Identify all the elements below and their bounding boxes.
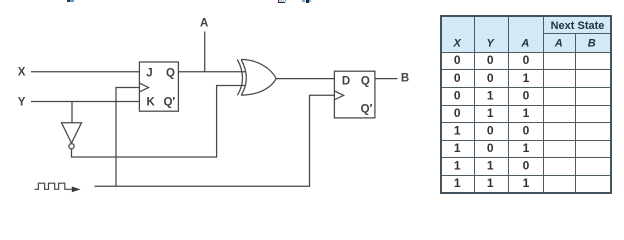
svg-text:0: 0 xyxy=(454,71,461,85)
svg-text:0: 0 xyxy=(487,141,494,155)
svg-text:1: 1 xyxy=(487,88,494,102)
svg-text:0: 0 xyxy=(523,53,530,67)
svg-text:0: 0 xyxy=(523,88,530,102)
svg-text:X: X xyxy=(453,38,462,50)
svg-text:1: 1 xyxy=(523,106,530,120)
svg-text:1: 1 xyxy=(454,159,461,173)
svg-text:B: B xyxy=(401,73,409,85)
svg-text:0: 0 xyxy=(454,53,461,67)
svg-text:Q: Q xyxy=(166,68,175,80)
svg-text:A: A xyxy=(520,38,529,50)
svg-text:1: 1 xyxy=(523,176,530,190)
svg-text:0: 0 xyxy=(454,106,461,120)
svg-text:A: A xyxy=(554,38,563,50)
svg-text:X: X xyxy=(18,67,26,79)
svg-text:1: 1 xyxy=(454,141,461,155)
svg-text:1: 1 xyxy=(523,141,530,155)
svg-text:1: 1 xyxy=(487,106,494,120)
svg-text:0: 0 xyxy=(523,123,530,137)
svg-text:0: 0 xyxy=(487,123,494,137)
svg-text:Next State: Next State xyxy=(551,20,605,32)
svg-text:1: 1 xyxy=(487,159,494,173)
svg-text:1: 1 xyxy=(454,123,461,137)
svg-text:0: 0 xyxy=(487,71,494,85)
svg-text:A: A xyxy=(200,17,208,29)
svg-text:Y: Y xyxy=(18,97,26,109)
svg-text:1: 1 xyxy=(487,176,494,190)
svg-text:1: 1 xyxy=(454,176,461,190)
svg-text:Q′: Q′ xyxy=(163,96,175,108)
svg-text:0: 0 xyxy=(454,88,461,102)
svg-text:0: 0 xyxy=(487,53,494,67)
svg-text:Q′: Q′ xyxy=(361,103,373,115)
svg-text:B: B xyxy=(588,38,596,50)
svg-text:D: D xyxy=(342,75,350,87)
svg-text:0: 0 xyxy=(523,159,530,173)
svg-text:Q: Q xyxy=(361,75,370,87)
svg-text:1: 1 xyxy=(523,71,530,85)
svg-text:J: J xyxy=(146,68,152,80)
svg-text:K: K xyxy=(146,96,155,108)
